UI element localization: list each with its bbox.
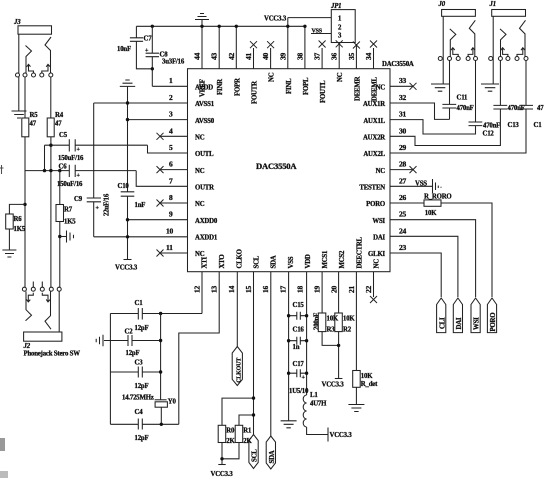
crystal Y0 14.725MHz — [122, 395, 177, 425]
svg-text:10: 10 — [166, 226, 174, 235]
contact arrows — [501, 48, 508, 57]
pin 13 wire to crystal bottom — [179, 272, 219, 425]
svg-text:+: + — [302, 375, 306, 381]
svg-text:C2: C2 — [125, 329, 134, 336]
terminals — [489, 57, 493, 61]
svg-text:C12: C12 — [483, 131, 495, 138]
svg-text:J0: J0 — [438, 1, 446, 8]
no-connect X pin 22 — [370, 272, 377, 303]
svg-text:FOPL: FOPL — [303, 77, 310, 95]
phonejack J1 (top right) — [481, 1, 528, 91]
svg-text:CLKO: CLKO — [236, 249, 243, 268]
svg-text:J1: J1 — [489, 1, 496, 8]
svg-text:8: 8 — [169, 193, 173, 202]
phonejack J2 (bottom left) — [22, 282, 80, 358]
svg-text:OUTR: OUTR — [195, 185, 214, 192]
svg-text:12pF: 12pF — [135, 325, 149, 332]
pin 21 wire to R_det — [355, 272, 357, 371]
C4 wire — [110, 423, 178, 425]
resistor R5 47 — [22, 77, 38, 137]
connector flag CLKOUT — [232, 347, 242, 386]
ground J1 — [481, 84, 499, 91]
svg-text:24: 24 — [399, 226, 407, 235]
svg-text:3: 3 — [169, 110, 173, 119]
svg-text:1U5/10: 1U5/10 — [289, 388, 309, 395]
pin 17 VSS rail — [288, 272, 290, 421]
svg-text:41: 41 — [244, 52, 253, 60]
pin 14 wire to CLKOUT — [236, 272, 238, 347]
svg-text:16: 16 — [261, 285, 270, 293]
svg-text:C16: C16 — [293, 327, 305, 334]
connector flag SDA — [266, 436, 276, 469]
svg-text:R2: R2 — [343, 327, 352, 334]
svg-text:42: 42 — [227, 52, 236, 60]
top inside rotated labels — [217, 72, 378, 104]
ground (top, inverted above pin 44) — [195, 14, 209, 27]
svg-text:C15: C15 — [293, 302, 305, 309]
svg-text:XTO: XTO — [219, 254, 226, 268]
svg-text:SDA: SDA — [269, 450, 276, 463]
no-connect X pin 37 — [319, 41, 326, 69]
no-connect X pin 11 — [157, 250, 164, 257]
pin 30 wire to C13 — [390, 109, 500, 146]
capacitor C10 — [118, 183, 146, 209]
pin 29 wire to C14 — [390, 109, 526, 153]
svg-text:SCL: SCL — [252, 449, 259, 462]
svg-text:C17: C17 — [293, 361, 305, 368]
VCC3.3 power symbol below C10 — [115, 260, 138, 272]
svg-text:AUX1L: AUX1L — [363, 118, 385, 125]
svg-text:+: + — [96, 206, 100, 212]
svg-text:27: 27 — [399, 176, 407, 185]
ground (inverted, on pin 2 net) — [120, 80, 135, 103]
svg-text:C9: C9 — [74, 196, 83, 203]
pin 20 wire to R2 — [338, 272, 340, 313]
svg-text:39: 39 — [278, 52, 287, 60]
pin 43 wire — [218, 26, 220, 68]
svg-text:10K: 10K — [343, 316, 355, 323]
svg-text:38: 38 — [295, 52, 304, 60]
svg-text:Y0: Y0 — [168, 399, 177, 406]
no-connect X pin 4 — [157, 133, 164, 140]
ground at R_det — [348, 405, 364, 412]
C3 wire — [110, 371, 160, 373]
capacitor C11 470nF — [442, 61, 473, 120]
svg-text:NC: NC — [195, 135, 205, 142]
pin 44 wire — [201, 26, 203, 68]
svg-text:+: + — [77, 173, 81, 179]
svg-text:10K: 10K — [425, 210, 437, 217]
contact stubs above — [33, 282, 42, 288]
R5 line down to J2 — [24, 137, 26, 287]
svg-text:5: 5 — [169, 143, 173, 152]
svg-text:C1: C1 — [534, 122, 543, 129]
svg-text:C10: C10 — [118, 183, 130, 190]
right pin numbers — [399, 76, 407, 252]
svg-text:+: + — [77, 147, 81, 153]
svg-text:AVSS0: AVSS0 — [195, 118, 215, 125]
no-connect X pin 8 — [157, 200, 164, 207]
pin 16 wire to SDA flag — [270, 272, 272, 436]
crystal top wire with C1 — [110, 313, 202, 315]
svg-text:11: 11 — [166, 243, 173, 252]
svg-text:20: 20 — [330, 285, 339, 293]
svg-text:AXDD1: AXDD1 — [195, 235, 218, 242]
svg-text:44: 44 — [193, 52, 202, 60]
svg-text:19: 19 — [313, 285, 322, 293]
pin 19 wire to R3 — [321, 272, 323, 313]
svg-text:PORO: PORO — [490, 313, 497, 332]
svg-text:150uF/16: 150uF/16 — [57, 181, 83, 188]
svg-text:150uF/16: 150uF/16 — [58, 155, 84, 162]
svg-text:NC: NC — [195, 201, 205, 208]
svg-text:31: 31 — [399, 110, 407, 119]
svg-text:NC: NC — [269, 72, 276, 82]
connector flag DAI — [453, 298, 463, 333]
svg-text:1K5: 1K5 — [64, 219, 76, 226]
svg-text:470nF: 470nF — [483, 122, 500, 129]
ground (sideways) at R7 — [58, 231, 73, 243]
contact arrows (mirrored) — [27, 293, 34, 302]
capacitor C3 12pF — [135, 360, 149, 391]
VCC3.3 power symbol below R0 — [211, 465, 234, 479]
capacitor C9 — [74, 193, 111, 216]
svg-text:NC: NC — [374, 259, 381, 269]
pin 8 stub NC — [160, 202, 188, 204]
svg-text:23: 23 — [399, 243, 407, 252]
capacitor C5 150uF/16 — [45, 132, 148, 162]
no-connect X pin 6 — [157, 166, 164, 173]
svg-text:14.725MHz: 14.725MHz — [122, 395, 154, 402]
pin 11 stub NC — [160, 252, 188, 254]
svg-text:R0: R0 — [226, 428, 235, 435]
resistor R4 47 — [47, 77, 64, 137]
resistor R6 1K5 — [6, 214, 26, 250]
branch to R6 — [9, 203, 26, 214]
svg-text:J3: J3 — [13, 19, 21, 26]
no-connect X pin 40 — [267, 41, 274, 68]
left inside pin labels — [195, 85, 218, 259]
inductor L1 4U7H — [303, 392, 328, 435]
svg-text:VREF: VREF — [200, 79, 207, 97]
switch arms — [450, 29, 456, 57]
svg-text:36: 36 — [330, 52, 339, 60]
resistor R3 10K — [318, 313, 339, 345]
terminals — [22, 287, 26, 291]
pin 7 wire OUTR — [136, 171, 187, 187]
svg-text:2: 2 — [169, 93, 173, 102]
chip U1 DAC3550A body — [188, 69, 391, 272]
svg-text:VCC3.3: VCC3.3 — [322, 382, 345, 389]
pin 23 wire to CLI flag — [390, 253, 441, 297]
svg-text:22: 22 — [364, 285, 373, 293]
pin 15 wire to SCL flag — [253, 272, 255, 435]
connector flag WSI — [471, 298, 481, 333]
svg-text:L1: L1 — [310, 392, 318, 399]
pin 5 wire OUTL — [148, 145, 188, 153]
junction dots on top bus — [151, 25, 154, 28]
capacitor C2 12pF — [125, 329, 140, 358]
rail from pin2 down through C9 to pin10 — [93, 103, 95, 237]
capacitor C17 + — [289, 361, 307, 381]
svg-text:VCC3.3: VCC3.3 — [211, 471, 234, 478]
svg-text:NC: NC — [195, 168, 205, 175]
svg-text:NC: NC — [337, 72, 344, 82]
svg-text:DAC3550A: DAC3550A — [382, 61, 414, 68]
svg-text:MCS1: MCS1 — [322, 250, 329, 269]
svg-text:AUX1R: AUX1R — [363, 101, 385, 108]
terminals — [16, 73, 20, 77]
svg-text:DAI: DAI — [373, 235, 385, 242]
pin 1 wire — [152, 85, 187, 87]
branch pin15 to R1 — [239, 415, 254, 425]
svg-text:R7: R7 — [64, 207, 73, 214]
svg-text:12pF: 12pF — [135, 383, 149, 390]
svg-text:1K5: 1K5 — [14, 226, 26, 233]
svg-text:DEECTRL: DEECTRL — [356, 236, 363, 268]
svg-text:4U7H: 4U7H — [310, 401, 327, 408]
svg-text:AVSS1: AVSS1 — [195, 101, 215, 108]
svg-text:NC: NC — [376, 168, 386, 175]
svg-text:R_RORO: R_RORO — [424, 194, 452, 201]
svg-text:DEEMR: DEEMR — [354, 76, 361, 101]
svg-text:VCC3.3: VCC3.3 — [330, 432, 353, 439]
switch arms — [500, 29, 506, 57]
svg-text:R6: R6 — [14, 216, 23, 223]
svg-text:DAC3550A: DAC3550A — [256, 161, 297, 171]
svg-text:C8: C8 — [160, 52, 169, 59]
pin 3 wire — [128, 119, 188, 121]
svg-text:R_det: R_det — [361, 381, 378, 388]
svg-text:13: 13 — [210, 285, 219, 293]
svg-text:C5: C5 — [59, 132, 68, 139]
VCC3.3 label feeding pin 39 — [264, 16, 331, 23]
wires: left pins stubs into chip — [94, 86, 188, 253]
svg-text:JP1: JP1 — [330, 3, 341, 10]
svg-text:37: 37 — [313, 52, 322, 60]
svg-text:PORO: PORO — [366, 201, 385, 208]
resistor R_det 10K — [353, 371, 378, 405]
svg-text:4: 4 — [169, 126, 173, 135]
pin 32 wire to C11 — [390, 103, 450, 119]
svg-text:WSI: WSI — [474, 317, 481, 330]
pin 38 wire — [304, 26, 306, 68]
svg-text:22uF/16: 22uF/16 — [104, 193, 111, 216]
svg-text:SDA: SDA — [271, 255, 278, 268]
pin 36 wire with X — [336, 40, 343, 68]
svg-text:47: 47 — [537, 105, 544, 112]
capacitor C4 12pF — [135, 409, 149, 442]
svg-text:12: 12 — [193, 285, 202, 293]
svg-text:30: 30 — [399, 126, 407, 135]
no-connect X pin 41 — [250, 41, 257, 68]
pin 35 wire with X — [353, 42, 360, 69]
resistor R2 10K — [335, 313, 356, 379]
svg-text:18: 18 — [295, 285, 304, 293]
ground at pin 17 rail — [281, 421, 297, 428]
svg-text:28: 28 — [399, 160, 407, 169]
ground J3 — [12, 111, 27, 118]
svg-text:R3: R3 — [327, 327, 336, 334]
svg-text:Phonejack Stero SW: Phonejack Stero SW — [24, 351, 81, 358]
svg-text:29: 29 — [399, 143, 407, 152]
pin 39 wire — [287, 18, 289, 69]
svg-text:C7: C7 — [144, 36, 153, 43]
svg-text:1nF: 1nF — [135, 202, 146, 209]
svg-text:40: 40 — [261, 52, 270, 60]
svg-text:10K: 10K — [361, 373, 373, 380]
svg-text:AUX2L: AUX2L — [363, 151, 385, 158]
capacitor C14 (clipped at edge) — [519, 61, 544, 130]
pin 6 stub NC — [160, 169, 188, 171]
capacitor C7 — [117, 26, 152, 69]
svg-text:FOUTR: FOUTR — [252, 81, 259, 104]
pin 9 wire — [128, 219, 188, 221]
top bus wire — [136, 25, 305, 27]
svg-text:1: 1 — [169, 76, 173, 85]
svg-text:12pF: 12pF — [135, 435, 149, 442]
switch arm left — [26, 291, 32, 320]
svg-text:R5: R5 — [30, 112, 39, 119]
svg-text:2K: 2K — [226, 438, 235, 445]
rail pin3/C10/VCC — [127, 103, 129, 260]
svg-text:32: 32 — [399, 93, 407, 102]
bottom inside rotated labels — [219, 236, 380, 268]
svg-text:CLI: CLI — [439, 317, 446, 329]
capacitor C16 1n — [289, 327, 307, 352]
svg-text:C4: C4 — [135, 409, 144, 416]
junction dot C7/C8 — [151, 67, 154, 70]
svg-text:MCS2: MCS2 — [339, 250, 346, 269]
VCC3.3 power symbol below R3/R2 — [322, 379, 345, 389]
svg-text:10K: 10K — [327, 316, 339, 323]
pin 12 wire down to crystal top wire — [201, 272, 203, 314]
contact arrows — [27, 64, 34, 73]
bottom pin rotated numbers — [193, 285, 374, 293]
pin 27 wire with VSS ground — [390, 179, 441, 193]
svg-text:C11: C11 — [457, 95, 469, 102]
crystal center rail — [160, 314, 162, 400]
svg-text:R1: R1 — [243, 428, 252, 435]
connector flag SCL — [249, 435, 259, 469]
capacitor C1 12pF — [135, 300, 149, 332]
svg-text:VSS: VSS — [415, 181, 427, 188]
svg-text:C13: C13 — [508, 122, 520, 129]
svg-text:WSI: WSI — [372, 218, 385, 225]
resistor R1 2K — [222, 425, 252, 459]
svg-text:12pF: 12pF — [126, 350, 140, 357]
svg-text:VCC3.3: VCC3.3 — [264, 16, 287, 23]
svg-text:AXDD0: AXDD0 — [195, 218, 218, 225]
svg-text:43: 43 — [210, 52, 219, 60]
connector JP1 — [330, 3, 355, 43]
no-connect X pin 33 — [390, 83, 417, 90]
svg-text:26: 26 — [399, 193, 407, 202]
svg-text:VDD: VDD — [305, 254, 312, 268]
resistor R0 2K — [218, 425, 235, 464]
svg-text:470nF: 470nF — [457, 105, 474, 112]
switch arm right — [45, 37, 51, 73]
svg-text:VSS: VSS — [288, 256, 295, 268]
svg-text:7: 7 — [169, 176, 173, 185]
VSS label into JP1 — [311, 29, 331, 35]
svg-text:R4: R4 — [55, 112, 64, 119]
right inside pin labels — [359, 85, 385, 259]
pin 24 wire to DAI flag — [390, 236, 458, 297]
svg-text:DAI: DAI — [456, 317, 463, 329]
svg-text:6: 6 — [169, 160, 173, 169]
capacitor C8 — [145, 26, 185, 86]
svg-text:FINR: FINR — [217, 79, 224, 95]
svg-text:9: 9 — [169, 210, 173, 219]
switch arm left — [26, 46, 32, 74]
pin 18 VDD rail — [306, 272, 308, 395]
VCC3.3 at L1 — [328, 428, 352, 442]
svg-text:J2: J2 — [23, 343, 31, 350]
pin 31 wire to C12 — [390, 120, 476, 134]
resistor R_RORO 10K on pin 26 — [390, 194, 492, 297]
svg-text:2K: 2K — [243, 438, 252, 445]
svg-text:XTI: XTI — [202, 256, 209, 268]
svg-text:10nF: 10nF — [117, 46, 131, 53]
svg-text:34: 34 — [364, 52, 373, 60]
left pin numbers — [166, 76, 174, 252]
C2 wire with ground (left) — [96, 335, 160, 346]
scan artifacts at edges — [0, 165, 4, 174]
svg-text:1n: 1n — [293, 344, 300, 351]
svg-text:AUX2R: AUX2R — [363, 135, 385, 142]
svg-text:17: 17 — [278, 285, 287, 293]
capacitor C13 470nF — [493, 61, 524, 130]
connector flag CLI — [437, 298, 447, 333]
pin 25 wire to WSI flag — [390, 220, 476, 297]
svg-text:25: 25 — [399, 210, 407, 219]
capacitor C12 470nF — [469, 61, 501, 138]
switch arm right — [45, 291, 51, 329]
pin 4 stub NC — [160, 135, 188, 137]
svg-text:FINL: FINL — [286, 78, 293, 94]
svg-text:VCC3.3: VCC3.3 — [115, 265, 138, 272]
svg-text:C1: C1 — [135, 300, 144, 307]
no-connect X pin 34 — [370, 41, 377, 69]
sleeve prong to ground — [18, 34, 20, 111]
ground J0 — [431, 84, 449, 91]
pin 42 wire — [235, 26, 237, 68]
left rail of crystal block — [109, 314, 111, 425]
svg-text:47: 47 — [55, 121, 62, 128]
top pin rotated numbers — [193, 52, 374, 60]
svg-text:NC: NC — [376, 85, 386, 92]
svg-text:21: 21 — [347, 285, 356, 293]
no-connect X pin 28 — [390, 166, 417, 173]
svg-text:GLKI: GLKI — [368, 251, 386, 258]
branch pin15 to R0 — [222, 398, 254, 425]
svg-text:15: 15 — [244, 285, 253, 293]
wire C5 corner down to C6 wire — [44, 145, 46, 170]
svg-text:35: 35 — [347, 52, 356, 60]
svg-text:TESTEN: TESTEN — [359, 185, 385, 192]
svg-text:FOPR: FOPR — [234, 78, 241, 96]
phonejack J3 (top left) — [12, 19, 53, 118]
ground R6 — [2, 250, 16, 257]
contact arrows — [451, 48, 458, 57]
junction dots left rails — [126, 101, 129, 104]
pin 2 wire — [94, 102, 188, 104]
capacitor C15 — [289, 302, 307, 320]
svg-text:47: 47 — [30, 121, 37, 128]
phonejack J0 (top right) — [431, 1, 478, 91]
svg-text:OUTL: OUTL — [195, 151, 214, 158]
